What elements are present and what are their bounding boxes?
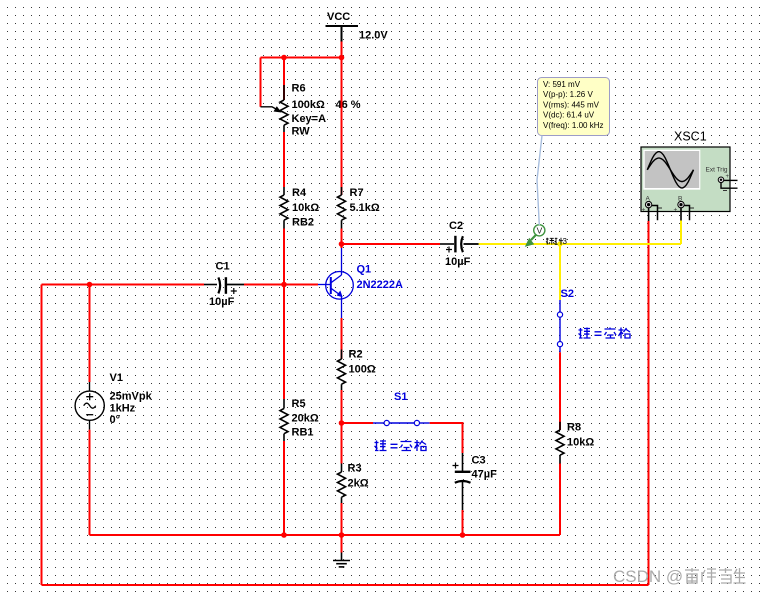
- wire R4 to base node: [283, 229, 285, 285]
- label S1 key text: [375, 440, 427, 451]
- wire VCC stem: [341, 42, 343, 58]
- svg-text:R5: R5: [292, 398, 306, 410]
- svg-text:0°: 0°: [110, 414, 121, 426]
- svg-text:V(dc): 61.4 uV: V(dc): 61.4 uV: [543, 111, 595, 120]
- wire R5 to bottom rail: [283, 441, 285, 535]
- svg-text:C2: C2: [449, 220, 463, 232]
- svg-text:R6: R6: [292, 83, 306, 95]
- svg-text:V: 591 mV: V: 591 mV: [543, 80, 581, 89]
- label S2 key text: [579, 328, 631, 339]
- source V1: [75, 372, 152, 430]
- wire input node to V1: [89, 285, 91, 383]
- measurement box: [538, 78, 610, 136]
- svg-text:RB2: RB2: [292, 217, 314, 229]
- wire top rail: [261, 57, 342, 59]
- wire bottom rail: [90, 534, 561, 536]
- node output T junction: [557, 241, 562, 246]
- svg-text:10µF: 10µF: [209, 296, 235, 308]
- wire outer bottom: [42, 584, 649, 586]
- svg-text:+: +: [726, 174, 730, 180]
- wire Q1 emitter to R2: [341, 318, 343, 359]
- capacitor C1: [204, 261, 244, 309]
- svg-text:C1: C1: [216, 261, 230, 273]
- svg-text:VCC: VCC: [327, 11, 350, 23]
- switch S2: [557, 288, 574, 352]
- svg-text:V(p-p): 1.26 V: V(p-p): 1.26 V: [543, 90, 593, 99]
- wire input rail left: [42, 284, 205, 286]
- svg-text:20kΩ: 20kΩ: [292, 413, 319, 425]
- svg-text:10kΩ: 10kΩ: [567, 437, 594, 449]
- svg-text:100Ω: 100Ω: [349, 364, 376, 376]
- wire S1 node to R3: [341, 423, 343, 464]
- power VCC: [326, 11, 389, 42]
- junction base node / R4-R5: [281, 282, 287, 288]
- wire outer left: [41, 285, 43, 586]
- wire pot wiper leg: [260, 58, 262, 107]
- resistor R5: [280, 398, 319, 441]
- wire base node to R5: [283, 285, 285, 400]
- wire top rail to R7: [341, 58, 343, 196]
- svg-text:CSDN @: CSDN @: [613, 567, 683, 586]
- svg-text:V(rms): 445 mV: V(rms): 445 mV: [543, 100, 600, 109]
- wire S2 to R8: [559, 352, 561, 430]
- wire C1 to base junction: [244, 284, 318, 286]
- svg-text:+: +: [674, 207, 678, 214]
- wire S1 node left stub: [342, 422, 374, 424]
- capacitor C2: [440, 220, 479, 268]
- svg-text:12.0V: 12.0V: [359, 30, 388, 42]
- ground: [333, 535, 350, 567]
- svg-text:Key=A: Key=A: [292, 113, 327, 125]
- wire R7 to collector node: [341, 229, 343, 245]
- svg-text:V(freq): 1.00 kHz: V(freq): 1.00 kHz: [543, 121, 603, 130]
- resistor R8: [556, 422, 594, 464]
- svg-text:S1: S1: [394, 391, 407, 403]
- label probe name: [546, 238, 563, 245]
- wire V1 to bottom rail: [89, 430, 91, 535]
- svg-text:R3: R3: [348, 463, 362, 475]
- oscilloscope XSC1: [641, 130, 738, 222]
- svg-text:Q1: Q1: [357, 264, 372, 276]
- wire R6 to R4: [283, 132, 285, 187]
- resistor R4: [280, 187, 319, 229]
- svg-text:100kΩ: 100kΩ: [292, 99, 325, 111]
- svg-text:XSC1: XSC1: [674, 130, 707, 144]
- junction top rail / VCC: [339, 55, 345, 61]
- svg-text:47µF: 47µF: [472, 469, 498, 481]
- svg-text:RW: RW: [292, 126, 311, 138]
- watermark: [613, 567, 746, 586]
- svg-text:R4: R4: [292, 187, 307, 199]
- probe voltage: [525, 225, 545, 247]
- junction collector node / C2: [339, 241, 345, 247]
- junction top rail / R6: [281, 55, 287, 61]
- potentiometer R6: [261, 58, 361, 138]
- resistor R3: [338, 463, 369, 504]
- svg-text:+: +: [642, 207, 646, 214]
- wire collector down to Q1: [341, 244, 343, 248]
- switch S1: [373, 391, 430, 426]
- svg-text:Ext Trig: Ext Trig: [706, 167, 728, 174]
- svg-text:10µF: 10µF: [445, 256, 471, 268]
- transistor Q1: [318, 248, 403, 318]
- junction bottom rail / R3 ground: [339, 532, 345, 538]
- svg-text:2kΩ: 2kΩ: [348, 478, 369, 490]
- wire C3 to bottom rail: [462, 510, 464, 535]
- svg-text:10kΩ: 10kΩ: [292, 202, 319, 214]
- junction emitter node / S1: [339, 420, 345, 426]
- wire S2 yellow drop: [559, 244, 561, 300]
- wire output rail yellow: [479, 243, 681, 245]
- resistor R2: [338, 349, 376, 391]
- capacitor C3: [453, 453, 498, 510]
- svg-text:V: V: [537, 226, 543, 236]
- svg-text:V1: V1: [110, 372, 123, 384]
- junction input node / V1: [87, 282, 93, 288]
- svg-text:3: 3: [563, 237, 568, 246]
- resistor R7: [338, 187, 380, 229]
- svg-text:1kHz: 1kHz: [110, 403, 136, 415]
- wire probe link: [537, 136, 542, 226]
- wire R3 to bottom rail: [341, 503, 343, 535]
- svg-text:5.1kΩ: 5.1kΩ: [350, 202, 380, 214]
- svg-text:25mVpk: 25mVpk: [110, 391, 153, 403]
- svg-text:S2: S2: [561, 288, 574, 300]
- wire scope B yellow riser: [680, 221, 682, 245]
- svg-text:46 %: 46 %: [336, 99, 361, 111]
- wire scope A drop: [648, 221, 650, 585]
- wire S1 to C3 corner: [430, 423, 463, 453]
- svg-text:2N2222A: 2N2222A: [357, 279, 404, 291]
- svg-text:R7: R7: [350, 187, 364, 199]
- junction bottom rail / C3: [460, 532, 466, 538]
- wire R8 to bottom rail corner: [559, 464, 561, 536]
- svg-text:C3: C3: [472, 455, 486, 467]
- junction bottom rail / R5: [281, 532, 287, 538]
- svg-text:RB1: RB1: [292, 427, 314, 439]
- wire R2 to S1 node: [341, 390, 343, 423]
- svg-text:R8: R8: [567, 422, 581, 434]
- svg-text:R2: R2: [349, 349, 363, 361]
- wire collector rail to C2: [342, 243, 441, 245]
